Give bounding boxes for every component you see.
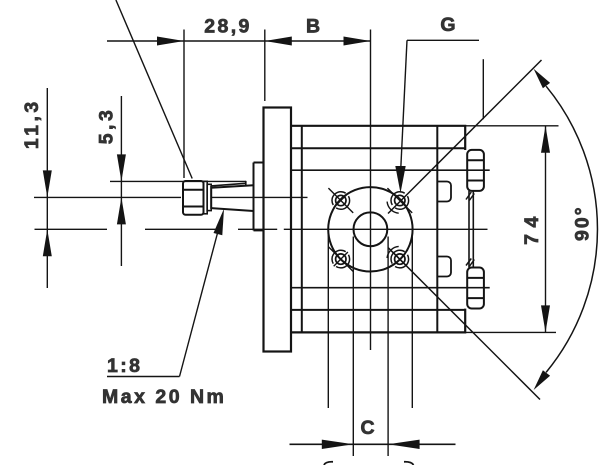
- top-left leader line to nut: [116, 0, 192, 179]
- C arrow right at x353.3: [322, 440, 354, 449]
- C arrow left at x388.1: [388, 440, 420, 449]
- 74 dimension line: [545, 126, 547, 333]
- extension line shaft end x184: [183, 30, 185, 179]
- svg-text:C: C: [360, 417, 374, 439]
- 74 arrow up: [541, 126, 550, 153]
- 74 ext line bottom: [466, 331, 556, 333]
- screw hole bottom-right: [387, 246, 409, 268]
- nut: [183, 181, 204, 215]
- 1:8 leader arrow: [214, 209, 225, 236]
- G leader arrow: [395, 166, 405, 193]
- mounting flange plate: [264, 108, 292, 352]
- washer 1: [204, 181, 208, 214]
- cropped text remnants bottom: [324, 462, 333, 465]
- bolt axis line bottom y288.4: [291, 287, 490, 289]
- main horizontal centerline: [35, 228, 488, 230]
- C extension line inner-left: [352, 237, 354, 457]
- shaft axis line: [34, 196, 308, 198]
- port boss bottom: [437, 257, 451, 277]
- 1:8 leader line: [180, 218, 222, 377]
- 11,3 arrow up at y229.3: [43, 229, 52, 256]
- port boss top: [437, 182, 451, 202]
- dim 5,3 vertical line: [120, 96, 122, 266]
- central circle rear port: [354, 212, 388, 246]
- 74 ext line top: [466, 125, 559, 127]
- extension line flange face x265.7: [264, 30, 266, 102]
- 5,3 arrow down at y181.4: [117, 154, 126, 181]
- washer chamfer ticks top bolt: [466, 192, 471, 200]
- bolt axis line top y170.2: [291, 169, 490, 171]
- pump body outline: [291, 126, 465, 333]
- svg-text:28,9: 28,9: [204, 16, 252, 38]
- body joint vertical x437.3: [436, 126, 438, 333]
- arrow at x370.5 pointing right: [344, 37, 371, 46]
- body line y309.9: [291, 309, 465, 311]
- big circle rear view: [328, 187, 412, 271]
- arc arrow top: [534, 69, 551, 89]
- bolt head bottom: [467, 268, 484, 309]
- washer 2: [207, 184, 211, 210]
- 5,3 extension line key top: [110, 180, 246, 182]
- 5,3 arrow up at y197.4: [117, 197, 126, 224]
- C dimension line: [290, 443, 456, 445]
- G leader line: [401, 40, 407, 170]
- svg-text:5,3: 5,3: [96, 107, 118, 145]
- svg-text:B: B: [306, 16, 320, 38]
- body line y148.5: [291, 147, 465, 149]
- svg-text:Max 20 Nm: Max 20 Nm: [102, 386, 226, 408]
- arrow at x265.7 pointing left: [265, 37, 292, 46]
- 11,3 arrow down at y197.4: [43, 170, 52, 197]
- tapered shaft cone: [211, 185, 253, 211]
- svg-text:74: 74: [521, 210, 543, 245]
- screw hole top-left: [328, 188, 353, 213]
- svg-text:11,3: 11,3: [21, 98, 43, 149]
- pilot boss on flange face: [254, 163, 264, 231]
- arc arrow bottom: [534, 370, 551, 390]
- bolt head top: [467, 150, 484, 191]
- svg-text:1:8: 1:8: [107, 355, 142, 377]
- front view vertical centerline x370.5: [370, 30, 372, 351]
- body joint vertical x300.8: [301, 126, 303, 333]
- svg-text:90°: 90°: [572, 205, 594, 241]
- washer chamfer ticks bottom bolt: [466, 259, 471, 266]
- 74 arrow down: [541, 305, 550, 332]
- G leader underline: [407, 39, 479, 41]
- arrow at x184 pointing right: [157, 37, 184, 46]
- 45 degree line upper: [388, 60, 542, 214]
- screw hole top-right: [387, 188, 412, 213]
- dim 11,3 vertical line: [46, 88, 48, 288]
- screw hole bottom-left: [328, 247, 353, 272]
- key on shaft top: [211, 181, 246, 186]
- vertical tie line at x483: [482, 59, 484, 119]
- 45 degree line lower: [388, 248, 540, 400]
- 90 degree arc: [546, 86, 597, 372]
- C extension line inner-right: [387, 237, 389, 457]
- top dimension line: [107, 40, 371, 42]
- C extension line outer-right: [411, 230, 413, 408]
- C extension line outer-left: [327, 230, 329, 408]
- svg-text:G: G: [440, 14, 455, 36]
- rear cover face lines: [468, 191, 470, 268]
